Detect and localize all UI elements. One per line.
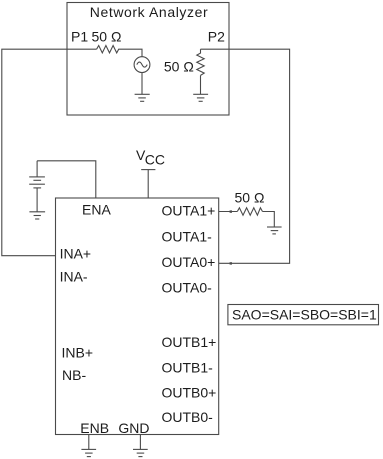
svg-text:OUTB0+: OUTB0+ bbox=[162, 384, 217, 400]
svg-text:OUTA0+: OUTA0+ bbox=[162, 254, 216, 270]
wire source to ground bbox=[141, 73, 143, 95]
junction dot OUTA0+ stub bbox=[230, 262, 232, 264]
wire R2 to ground bbox=[200, 75, 202, 94]
svg-text:OUTB1-: OUTB1- bbox=[162, 360, 214, 376]
ground (R2) bbox=[193, 94, 208, 101]
ground (ENB) bbox=[81, 449, 96, 456]
ground (battery) bbox=[29, 212, 45, 219]
wire R1 to source bbox=[121, 49, 143, 57]
AC source V1 bbox=[134, 57, 150, 73]
svg-text:ENA: ENA bbox=[82, 201, 111, 217]
wire battery to ENA bbox=[37, 161, 96, 198]
svg-text:P2: P2 bbox=[208, 29, 225, 45]
ground (R3) bbox=[267, 227, 282, 234]
svg-text:INA-: INA- bbox=[60, 269, 88, 285]
wire GND to ground bbox=[139, 435, 141, 450]
svg-text:CC: CC bbox=[145, 152, 165, 168]
junction dot OUTA1+ stub bbox=[230, 210, 232, 212]
wire VCC to IC bbox=[147, 170, 149, 198]
svg-text:OUTA1-: OUTA1- bbox=[162, 228, 213, 244]
note box SAO=SAI=SBO=SBI=1 bbox=[228, 305, 379, 325]
op-amp U1 (device under test box) bbox=[56, 198, 219, 435]
svg-text:OUTB1+: OUTB1+ bbox=[162, 334, 217, 350]
wire R3 to ground bbox=[263, 212, 275, 227]
svg-text:OUTB0-: OUTB0- bbox=[162, 409, 214, 425]
svg-text:50 Ω: 50 Ω bbox=[164, 59, 194, 75]
svg-text:INA+: INA+ bbox=[60, 245, 92, 261]
svg-text:NB-: NB- bbox=[62, 367, 86, 383]
svg-text:GND: GND bbox=[118, 420, 149, 436]
svg-text:OUTA0-: OUTA0- bbox=[162, 280, 213, 296]
VCC terminal bar bbox=[141, 169, 155, 171]
svg-text:INB+: INB+ bbox=[62, 345, 94, 361]
resistor R3 bbox=[237, 208, 262, 215]
svg-text:50 Ω: 50 Ω bbox=[235, 189, 265, 205]
svg-text:SAO=SAI=SBO=SBI=1: SAO=SAI=SBO=SBI=1 bbox=[232, 306, 377, 322]
svg-text:Network Analyzer: Network Analyzer bbox=[90, 4, 209, 20]
Network Analyzer box bbox=[67, 3, 229, 116]
svg-text:ENB: ENB bbox=[80, 420, 109, 436]
wire P2 to OUTA0+ bbox=[201, 49, 290, 263]
wire P1 to INA+ bbox=[2, 49, 97, 256]
ground (GND) bbox=[133, 449, 148, 456]
wire ENB to ground bbox=[88, 435, 90, 450]
battery B1 (ENA bias) bbox=[29, 161, 45, 212]
svg-text:50 Ω: 50 Ω bbox=[92, 29, 122, 45]
resistor R2 bbox=[197, 49, 204, 75]
svg-text:P1: P1 bbox=[71, 29, 88, 45]
ground (source) bbox=[135, 94, 150, 101]
resistor R1 bbox=[97, 46, 121, 53]
svg-text:OUTA1+: OUTA1+ bbox=[162, 203, 216, 219]
pin stub OUTA1+ bbox=[219, 211, 238, 213]
